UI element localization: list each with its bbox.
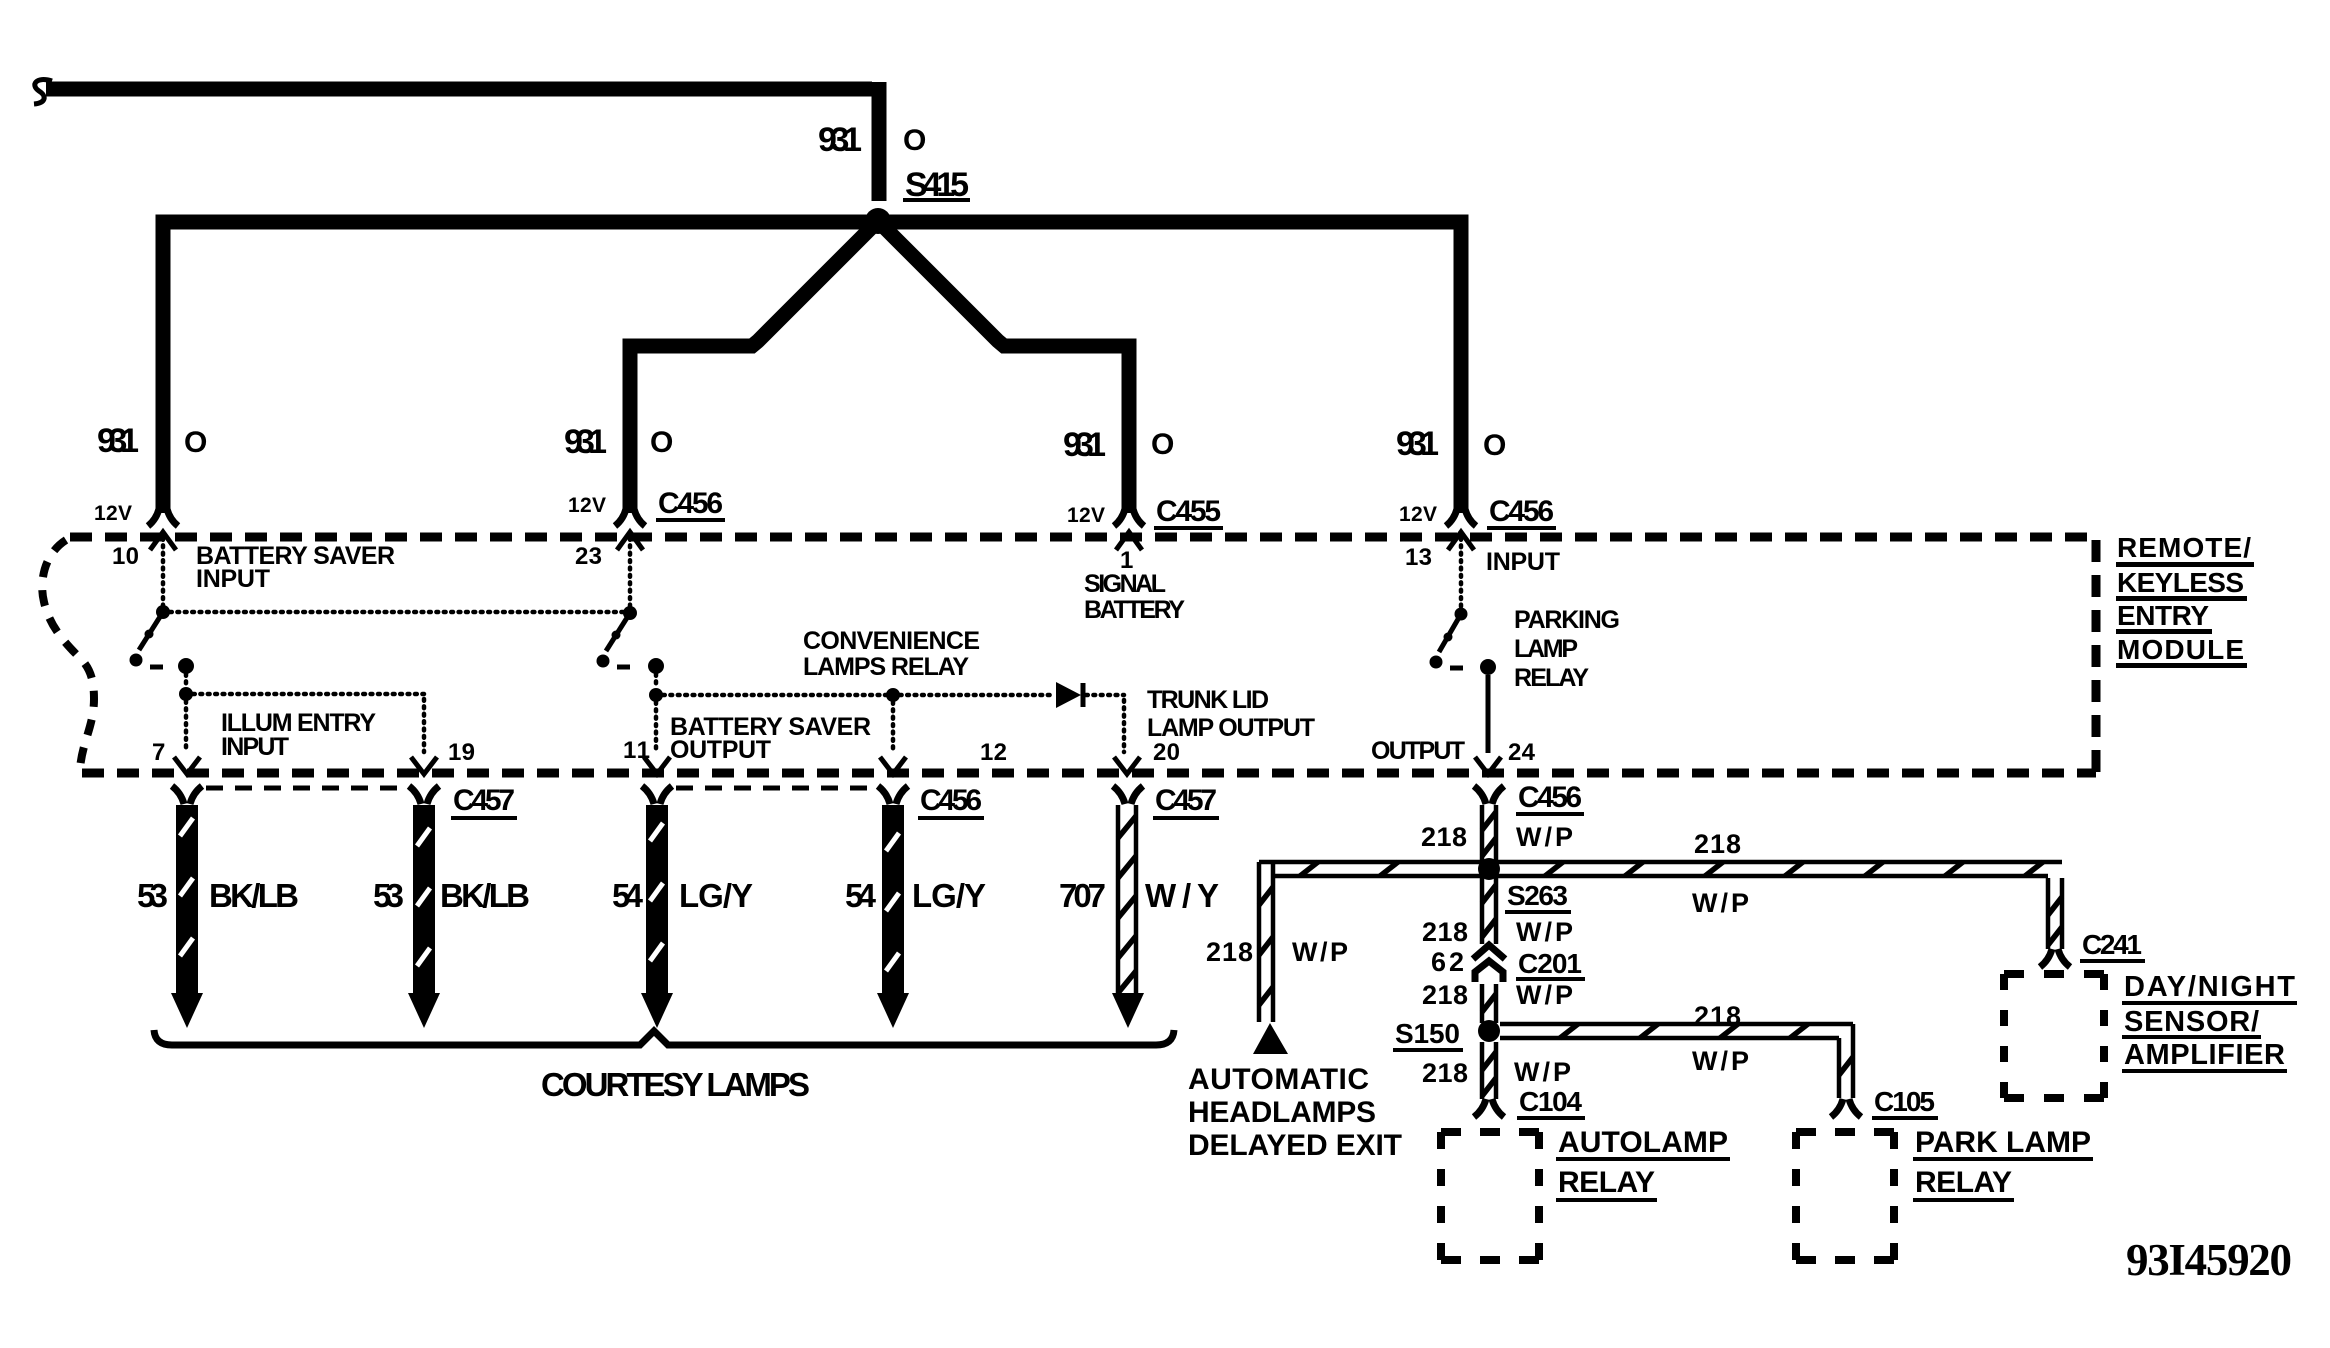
svg-text:MODULE: MODULE <box>2117 634 2245 665</box>
module dashed outline left wavy edge <box>42 540 94 769</box>
continuation hook at left end of feed wire <box>34 80 52 104</box>
switch contact illum entry <box>130 654 143 667</box>
12V terminal at pin 13 wire end <box>1446 504 1476 526</box>
node parking lamp relay output <box>1480 659 1496 675</box>
wire 218 W/P horizontal through S263 (to day/night sensor and to headlamps exit) <box>1259 862 2062 876</box>
svg-text:OUTPUT: OUTPUT <box>1371 737 1465 765</box>
node battery saver crossover (pin23) <box>623 606 637 620</box>
terminal triangle automatic headlamps delayed exit <box>1253 1023 1288 1054</box>
svg-text:OUTPUT: OUTPUT <box>670 736 771 764</box>
wire 54 LG/Y (pin 12) to courtesy lamps <box>882 805 904 995</box>
svg-text:ENTRY: ENTRY <box>2117 600 2210 631</box>
svg-text:218: 218 <box>1422 917 1468 947</box>
svg-text:C241: C241 <box>2082 929 2143 960</box>
brace grouping courtesy lamps <box>154 1030 1174 1045</box>
svg-text:AUTOLAMP: AUTOLAMP <box>1558 1126 1728 1159</box>
svg-text:O: O <box>184 426 207 459</box>
connector C241 plug (prongs down) <box>2040 949 2070 967</box>
svg-text:W/P: W/P <box>1516 822 1573 852</box>
svg-text:SIGNAL: SIGNAL <box>1084 570 1166 598</box>
svg-text:C456: C456 <box>1518 781 1582 814</box>
wire dotted crossover pin10-pin23 <box>170 610 623 615</box>
svg-text:KEYLESS: KEYLESS <box>2117 567 2245 598</box>
switch contact battery saver <box>597 655 610 668</box>
svg-text:BATTERY: BATTERY <box>1084 596 1185 624</box>
svg-text:93I45920: 93I45920 <box>2126 1235 2292 1285</box>
splice S263 node dot <box>1478 858 1500 880</box>
pin 23 arrow (into module) <box>617 532 643 550</box>
svg-text:53: 53 <box>373 877 404 914</box>
svg-text:12V: 12V <box>1399 503 1437 526</box>
wire 931 bus (horizontal through S415) with left leg to C456 and right leg to C456 <box>163 222 1461 513</box>
module dashed outline right edge <box>2092 540 2101 773</box>
connector dashed link C457 pins <box>206 786 406 791</box>
pin 19 arrow (out of module) <box>411 757 437 774</box>
wire 53 BK/LB (pin 19) to courtesy lamps <box>413 805 435 995</box>
diode (trunk lid lamp output) <box>1056 682 1081 708</box>
wire 707 W/Y (pin 20) to courtesy lamps (hatched) <box>1118 805 1136 995</box>
svg-text:BK/LB: BK/LB <box>440 877 530 914</box>
svg-text:W/P: W/P <box>1292 937 1348 967</box>
svg-text:BK/LB: BK/LB <box>209 877 299 914</box>
svg-text:C201: C201 <box>1518 948 1583 979</box>
svg-text:SENSOR/: SENSOR/ <box>2124 1006 2259 1038</box>
connector C456 socket at pin 24 wire 218 <box>1474 786 1504 804</box>
wire 931 right diagonal branch from S415 to C455 (pin 1) <box>885 228 1129 513</box>
svg-text:AMPLIFIER: AMPLIFIER <box>2124 1039 2285 1071</box>
svg-text:12V: 12V <box>94 502 132 525</box>
svg-text:C104: C104 <box>1519 1086 1583 1117</box>
pin 12 arrow (out of module) <box>880 757 906 774</box>
wire 931 left diagonal branch from S415 to C456 (pin 23) <box>630 228 871 513</box>
svg-text:COURTESY LAMPS: COURTESY LAMPS <box>541 1066 812 1103</box>
svg-text:54: 54 <box>612 877 644 914</box>
wire 218 W/P from S263 to C201 <box>1482 878 1496 944</box>
svg-text:W/P: W/P <box>1692 1046 1749 1076</box>
svg-text:218: 218 <box>1422 1058 1468 1088</box>
module dashed outline bottom edge <box>82 769 2096 778</box>
wire parking relay output to pin 24 <box>1486 675 1491 753</box>
day/night sensor amplifier dashed box <box>2004 974 2104 1098</box>
svg-text:C457: C457 <box>1155 784 1217 817</box>
svg-text:707: 707 <box>1059 877 1106 914</box>
12V terminal at pin 10 wire end <box>148 504 178 526</box>
svg-text:C105: C105 <box>1874 1086 1936 1117</box>
svg-text:54: 54 <box>845 877 877 914</box>
svg-text:931: 931 <box>97 422 139 460</box>
svg-text:REMOTE/: REMOTE/ <box>2117 532 2252 563</box>
12V terminal at pin 1 wire end <box>1114 504 1144 526</box>
svg-text:24: 24 <box>1508 739 1536 766</box>
svg-text:PARKING: PARKING <box>1514 606 1620 634</box>
autolamp relay dashed box <box>1441 1132 1539 1260</box>
pin 20 arrow (out of module) <box>1114 757 1140 774</box>
park lamp relay dashed box <box>1796 1132 1894 1260</box>
svg-text:931: 931 <box>564 423 607 461</box>
wire illum entry net (dotted) to pins 7 and 19 <box>184 674 189 688</box>
svg-text:LG/Y: LG/Y <box>679 877 753 914</box>
wire 218 W/P left branch down to automatic headlamps <box>1259 862 1273 1022</box>
svg-text:C456: C456 <box>920 784 982 817</box>
connector C457 socket at wire 53 (pin 7) <box>172 786 202 804</box>
svg-text:C456: C456 <box>658 487 723 520</box>
svg-text:218: 218 <box>1694 1001 1741 1031</box>
svg-text:RELAY: RELAY <box>1558 1166 1655 1199</box>
svg-text:S150: S150 <box>1395 1018 1461 1049</box>
12V terminal at pin 23 wire end <box>615 504 645 526</box>
svg-text:DELAYED EXIT: DELAYED EXIT <box>1188 1129 1402 1162</box>
pin 11 arrow (out of module) <box>644 757 670 774</box>
svg-text:10: 10 <box>112 543 139 570</box>
svg-text:C456: C456 <box>1489 495 1554 528</box>
svg-text:12V: 12V <box>568 494 606 517</box>
svg-text:LAMPS RELAY: LAMPS RELAY <box>803 653 969 681</box>
pin 13 arrow (into module) <box>1448 532 1474 550</box>
wire 931 feed from fuse (top horizontal) <box>46 82 872 97</box>
wire 54 LG/Y (pin 11) to courtesy lamps <box>646 805 668 995</box>
svg-text:W/P: W/P <box>1514 1057 1571 1087</box>
wire 218 W/P from S150 down to C104 (autolamp relay) <box>1482 1042 1496 1099</box>
svg-text:O: O <box>1483 429 1506 462</box>
svg-text:INPUT: INPUT <box>221 733 289 761</box>
pin 1 arrow (into module) <box>1116 532 1142 550</box>
svg-text:INPUT: INPUT <box>1486 548 1560 576</box>
svg-text:218: 218 <box>1694 829 1741 859</box>
svg-text:LG/Y: LG/Y <box>912 877 986 914</box>
wire battery saver output net (dotted) to pins 11,12,20 <box>654 674 659 688</box>
splice S415 node dot <box>865 208 891 234</box>
svg-text:7: 7 <box>152 739 165 766</box>
svg-text:23: 23 <box>575 543 602 570</box>
wire 218 W/P from C456 to S263 (hatched vertical) <box>1482 805 1496 860</box>
connector C456 socket at wire 54 (pin 11) <box>642 786 672 804</box>
connector C105 plug (prongs down) <box>1831 1099 1861 1117</box>
node battery saver crossover (pin10) <box>156 605 170 619</box>
connector dashed link C456 pins <box>676 786 876 791</box>
svg-text:218: 218 <box>1422 980 1468 1010</box>
svg-text:W/P: W/P <box>1516 917 1573 947</box>
svg-text:11: 11 <box>623 737 650 764</box>
svg-text:AUTOMATIC: AUTOMATIC <box>1188 1063 1369 1096</box>
switch arm illum entry (from pin 10) <box>139 612 163 650</box>
pin 7 arrow (out of module) <box>174 757 200 774</box>
svg-text:931: 931 <box>818 121 862 159</box>
svg-text:RELAY: RELAY <box>1915 1166 2012 1199</box>
connector C201 (in-line) <box>1473 945 1505 959</box>
splice S150 node dot <box>1478 1020 1500 1042</box>
svg-text:O: O <box>1151 428 1174 461</box>
svg-text:19: 19 <box>448 739 475 766</box>
svg-text:HEADLAMPS: HEADLAMPS <box>1188 1096 1376 1129</box>
connector C104 plug (prongs down) <box>1474 1099 1504 1117</box>
svg-text:CONVENIENCE: CONVENIENCE <box>803 627 980 655</box>
wire 53 BK/LB (pin 7) to courtesy lamps <box>176 805 198 995</box>
svg-text:LAMP: LAMP <box>1514 635 1578 663</box>
wire 218 W/P horizontal from S150 to C105 (park lamp relay) <box>1500 1024 1853 1098</box>
svg-text:W/P: W/P <box>1516 980 1573 1010</box>
switch contact parking lamp relay <box>1430 656 1443 669</box>
svg-text:931: 931 <box>1396 425 1439 463</box>
pin 10 arrow (into module) <box>150 532 176 550</box>
node trunk lid branch <box>886 688 900 702</box>
switch arm parking lamp relay (from pin 13) <box>1455 608 1468 621</box>
svg-text:931: 931 <box>1063 426 1106 464</box>
svg-text:LAMP OUTPUT: LAMP OUTPUT <box>1147 714 1315 742</box>
node illum entry output <box>178 658 194 674</box>
pin 24 arrow (out of module) <box>1475 757 1501 774</box>
svg-text:O: O <box>650 426 673 459</box>
connector C456 socket at wire 54 (pin 12) <box>878 786 908 804</box>
svg-text:20: 20 <box>1153 739 1180 766</box>
svg-text:TRUNK LID: TRUNK LID <box>1147 686 1269 714</box>
svg-text:PARK LAMP: PARK LAMP <box>1915 1126 2091 1159</box>
svg-text:53: 53 <box>137 877 168 914</box>
svg-text:12: 12 <box>980 739 1007 766</box>
svg-text:DAY/NIGHT: DAY/NIGHT <box>2124 971 2295 1003</box>
svg-text:W/P: W/P <box>1692 888 1749 918</box>
svg-text:INPUT: INPUT <box>196 565 270 593</box>
svg-text:218: 218 <box>1206 937 1253 967</box>
svg-text:W/Y: W/Y <box>1145 877 1219 914</box>
svg-text:218: 218 <box>1421 822 1467 852</box>
connector C457 socket at wire 707 (pin 20) <box>1113 786 1143 804</box>
svg-text:C457: C457 <box>453 784 515 817</box>
node battery saver output <box>648 658 664 674</box>
svg-text:S263: S263 <box>1507 880 1569 911</box>
wire 218 W/P from C201 to S150 <box>1482 984 1496 1023</box>
remote/keyless entry module dashed outline top edge <box>70 533 2096 542</box>
connector C457 socket at wire 53 (pin 19) <box>409 786 439 804</box>
svg-text:12V: 12V <box>1067 504 1105 527</box>
svg-text:C455: C455 <box>1156 495 1221 528</box>
svg-text:13: 13 <box>1405 544 1432 571</box>
svg-text:O: O <box>903 124 926 157</box>
switch arm battery saver (from pin 23) <box>606 613 630 651</box>
svg-text:RELAY: RELAY <box>1514 664 1589 692</box>
